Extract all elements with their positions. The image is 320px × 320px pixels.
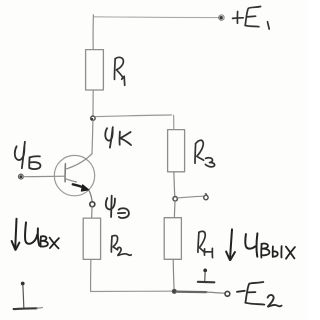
terminal +E1 bbox=[219, 15, 224, 20]
wire from node to R3 top horizontal bbox=[95, 115, 171, 117]
label phi-E bbox=[106, 196, 129, 218]
transistor base bar bbox=[64, 164, 66, 182]
wire emitter node to R2 bbox=[91, 207, 93, 218]
transistor collector stroke bbox=[66, 154, 92, 169]
wire R3 to junction bbox=[173, 172, 176, 196]
wire R2 bottom down and corner bbox=[90, 260, 92, 292]
label R3 bbox=[195, 140, 215, 167]
wire junction down to R4 bbox=[173, 201, 176, 217]
ground symbol left bbox=[14, 282, 43, 310]
terminal -E2 bbox=[225, 291, 230, 296]
label phi-K bbox=[105, 127, 131, 147]
transistor VT circle bbox=[54, 155, 94, 195]
label +E1 bbox=[233, 7, 270, 30]
node phi-K junction bbox=[91, 116, 96, 120]
wire junction to output terminal bbox=[178, 196, 203, 198]
label Rn bbox=[198, 231, 213, 257]
wire from R1 bottom down to collector node bbox=[92, 90, 94, 116]
transistor emitter stroke with arrow bbox=[65, 179, 92, 202]
wire bottom thick segment to -E2 bbox=[177, 291, 207, 294]
wire top horizontal from R1 to +E1 terminal bbox=[94, 16, 219, 19]
resistor R4 (Rn load) bbox=[164, 218, 181, 260]
label -E2 bbox=[237, 282, 282, 307]
wire collector vertical from node down to transistor bbox=[91, 121, 94, 155]
label U-out with down arrow bbox=[226, 229, 257, 260]
ground symbol right bbox=[198, 269, 214, 283]
wire vertical from top corner down to R1 bbox=[92, 15, 94, 50]
node bottom junction (filled) bbox=[172, 289, 176, 293]
wire vertical corner down to R3 bbox=[173, 115, 175, 129]
label phi-B bbox=[15, 142, 41, 169]
wire base from terminal to transistor bbox=[23, 175, 65, 178]
label R2 bbox=[111, 235, 131, 255]
resistor R2 bbox=[83, 218, 100, 259]
terminal base input bbox=[19, 174, 24, 179]
node R3/R4 junction (open circle) bbox=[173, 197, 177, 201]
wire bottom thin segment bbox=[207, 292, 225, 293]
label U-in with down arrow bbox=[12, 219, 40, 250]
resistor R1 bbox=[86, 50, 104, 90]
resistor R3 bbox=[168, 130, 185, 172]
node emitter (open circle) bbox=[90, 202, 95, 207]
label R1 bbox=[114, 57, 124, 85]
terminal output (open circle with tail) bbox=[204, 194, 208, 200]
wire bottom horizontal to node bbox=[91, 290, 173, 292]
wire R4 bottom to bottom node bbox=[172, 260, 175, 290]
